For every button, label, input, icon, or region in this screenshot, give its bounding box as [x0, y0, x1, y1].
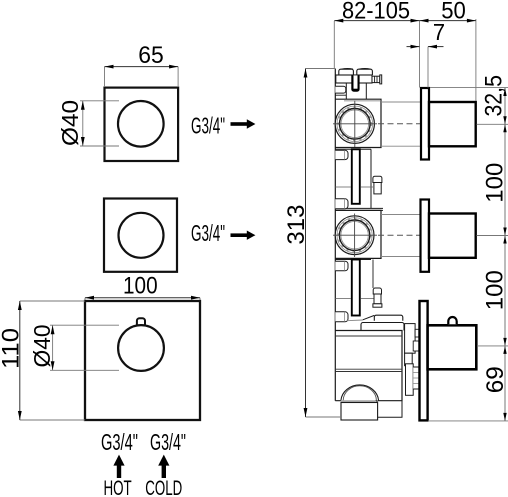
- arrow up (cold inlet): [158, 455, 169, 478]
- square plate 2 (65x65 escutcheon, front view): [104, 199, 177, 272]
- top cap crown (station 1 inlet cap): [339, 69, 373, 76]
- arrow right (plate 2 outlet direction): [231, 231, 256, 240]
- svg-text:65: 65: [138, 42, 164, 69]
- chain extension: knob 3 center: [477, 345, 508, 347]
- mounting lug (top left): [335, 86, 346, 95]
- junction line below station 2: [335, 260, 373, 289]
- wall flange 2 (station 2, thick): [421, 200, 430, 272]
- svg-text:HOT: HOT: [103, 477, 131, 497]
- station 3 shelf: [374, 315, 403, 321]
- arrow up (hot inlet): [113, 455, 124, 478]
- junction line below station 1: [335, 149, 371, 208]
- handle knob 2 (station 2, thick): [429, 214, 476, 258]
- station 2 neck lines to wall flange: [381, 215, 420, 257]
- wall flange 1 (station 1, thick): [421, 88, 429, 160]
- index bump on knob 3: [448, 317, 456, 324]
- label G3/4" (hot inlet): [101, 429, 138, 455]
- svg-text:100: 100: [482, 163, 508, 203]
- right dimension chain line: [504, 88, 506, 421]
- svg-text:G3/4": G3/4": [191, 113, 225, 139]
- label G3/4" (cold inlet): [150, 429, 186, 455]
- arrow right (plate 1 outlet direction): [231, 119, 256, 128]
- dimension 100 (width of plate 3): [85, 273, 200, 302]
- chain arrows: [503, 88, 506, 421]
- chain extension: knob 1 center: [477, 123, 508, 125]
- svg-text:Ø40: Ø40: [57, 100, 83, 146]
- dimension 65 (width of plate 1): [105, 42, 179, 87]
- svg-text:32,5: 32,5: [481, 75, 508, 117]
- dimension 82-105 (wall to plate distance): [334, 0, 419, 88]
- svg-text:G3/4": G3/4": [191, 220, 225, 246]
- svg-text:7: 7: [433, 19, 445, 45]
- mounting lug 1 (left, below station 1): [335, 150, 348, 159]
- dimension 313 (overall body height): [283, 69, 341, 418]
- dimension 7 (flange thickness): [407, 19, 446, 88]
- station 1 dashed centerline: [378, 123, 421, 125]
- knob circle of plate 1 (Ø40): [118, 101, 164, 147]
- station 3 main block (thermostatic body): [335, 331, 402, 401]
- station 2 port circles: [335, 216, 374, 255]
- mounting lug 4 (left, above station 3): [335, 312, 348, 322]
- mounting lug 2 (left, above station 2): [335, 199, 348, 209]
- svg-text:100: 100: [123, 273, 158, 300]
- square plate 3 (100x110 thermostatic plate, front view): [85, 301, 200, 420]
- dimension 69 (knob3 center to plate bottom): [482, 366, 508, 393]
- dimension Ø40 (plate-1 knob): [57, 100, 119, 146]
- top cap body (station 1): [336, 75, 372, 83]
- chain extension: knob 2 center: [477, 235, 508, 237]
- station 1 port circles: [335, 104, 374, 143]
- ribbed stub (top inlet plug): [372, 75, 382, 84]
- cap lower edge line: [346, 83, 366, 99]
- dimension 32,5 (top to knob-1 center): [481, 75, 508, 117]
- square plate 1 (65x65 escutcheon, front view): [105, 88, 179, 161]
- svg-text:COLD: COLD: [145, 477, 182, 497]
- handle knob 3 (station 3, thick): [428, 325, 477, 369]
- outlet box (bottom spout connection): [341, 403, 378, 421]
- dimension 110 (height of plate 3): [0, 301, 85, 420]
- svg-text:G3/4": G3/4": [150, 429, 186, 455]
- label G3/4" (plate 2 outlet): [191, 220, 225, 246]
- svg-text:110: 110: [0, 328, 25, 369]
- knob tab (plate 3 handle index): [137, 318, 145, 326]
- station 1 block outline: [335, 99, 381, 147]
- station 3 lower-right body extension: [377, 401, 402, 418]
- station 3 step: [361, 323, 404, 331]
- station 2 block outline: [335, 210, 381, 258]
- station 2 dashed centerline: [378, 234, 421, 236]
- body joint line (y298.5): [335, 298, 373, 300]
- svg-text:G3/4": G3/4": [101, 429, 138, 455]
- svg-text:100: 100: [482, 270, 508, 310]
- station 2 crosshair: [333, 214, 377, 258]
- dimension Ø40 (plate-3 knob): [29, 325, 119, 371]
- valve body left edge (wall side): [334, 69, 336, 401]
- mounting lug 3 (left, below station 2): [335, 261, 348, 271]
- svg-text:82-105: 82-105: [342, 0, 410, 25]
- chain extension: plate 3 bottom: [428, 420, 508, 422]
- label G3/4" (plate 1 outlet): [191, 113, 225, 139]
- diverter mechanism stack (right of station 3): [405, 324, 419, 396]
- svg-text:Ø40: Ø40: [29, 325, 55, 368]
- dimension 50 (knob depth): [420, 0, 476, 101]
- dimension 100 (knob2 to knob3 centers): [482, 270, 508, 310]
- knob circle of plate 2 (Ø40): [119, 213, 164, 258]
- handle knob 1 (station 1, thick): [429, 102, 476, 146]
- station 1 crosshair: [333, 101, 377, 148]
- screw slot (station 1 cap): [351, 75, 359, 91]
- chain extension: flange top: [430, 87, 508, 89]
- side stub port (between stations 2-3): [373, 288, 382, 307]
- station 2 shoulder: [335, 208, 383, 210]
- supply pipe bar (between stations 2-3): [352, 260, 360, 316]
- label COLD: [145, 477, 182, 497]
- wall plate 3 (station 3, thick): [420, 301, 428, 420]
- body joint line (y187): [335, 186, 373, 188]
- station 1 neck lines to wall flange: [381, 102, 420, 146]
- outlet arch (pipe bend): [341, 385, 379, 402]
- label HOT: [103, 477, 131, 497]
- svg-text:69: 69: [482, 366, 508, 393]
- side stub port (between stations 1-2): [373, 176, 382, 194]
- svg-text:313: 313: [283, 205, 310, 245]
- supply pipe bar (between stations 1-2): [352, 149, 360, 204]
- dimension 100 (knob1 to knob2 centers): [482, 163, 508, 203]
- slope line to station 3 shelf: [347, 315, 375, 320]
- knob circle of plate 3 (Ø40): [118, 325, 164, 371]
